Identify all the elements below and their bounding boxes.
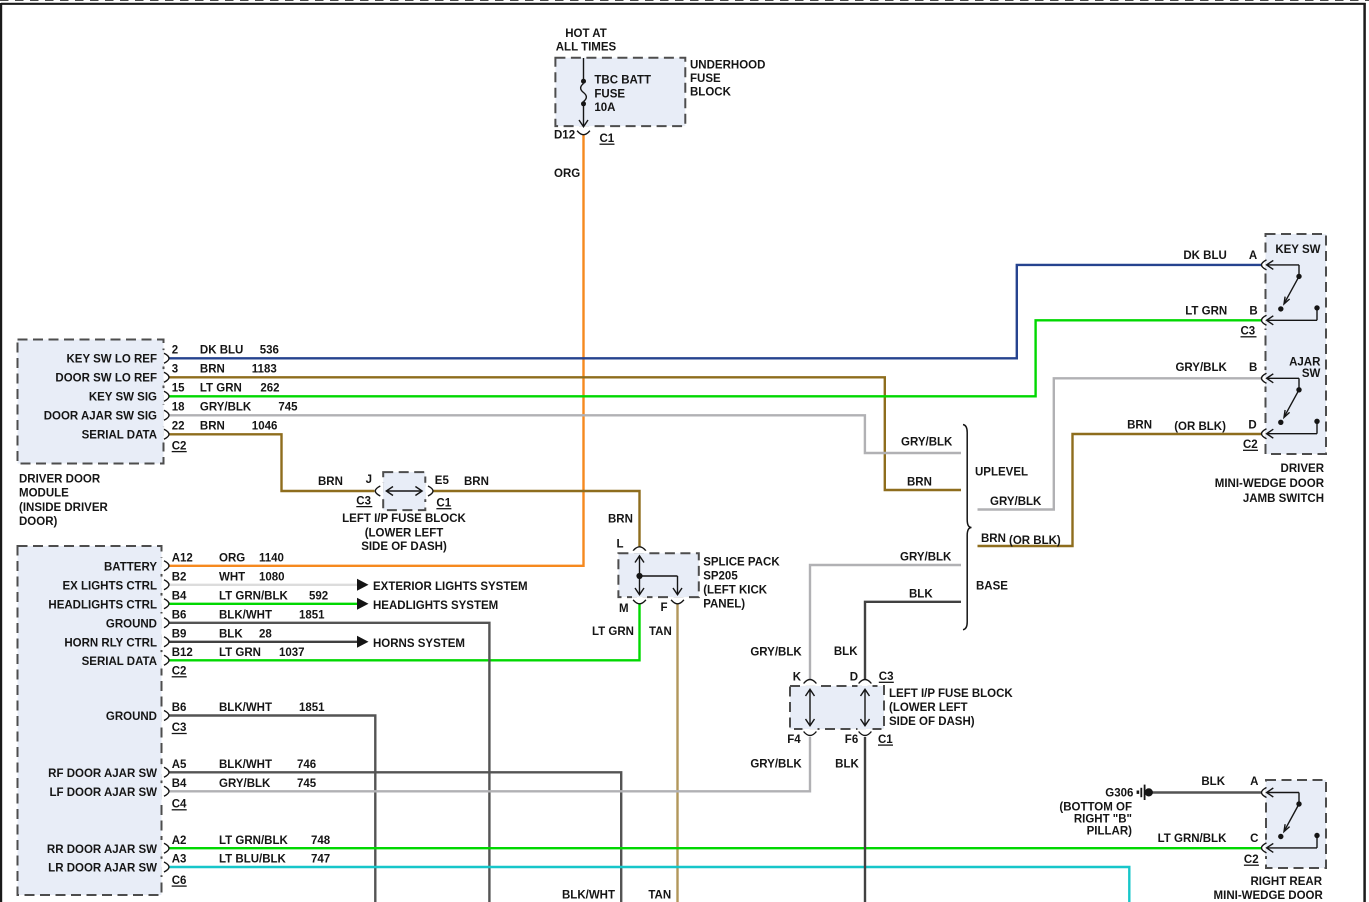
wire BLK 28 (BCM B9 to horns system) xyxy=(169,641,357,643)
svg-text:C2: C2 xyxy=(1244,854,1259,866)
svg-text:SIDE OF DASH): SIDE OF DASH) xyxy=(889,716,975,728)
svg-text:A: A xyxy=(1250,776,1258,788)
svg-text:(OR BLK): (OR BLK) xyxy=(1009,535,1061,547)
svg-text:HORNS SYSTEM: HORNS SYSTEM xyxy=(373,638,465,650)
wire BLK (connector F6 down off page) xyxy=(864,737,866,902)
svg-text:D12: D12 xyxy=(554,130,575,142)
svg-text:EXTERIOR LIGHTS SYSTEM: EXTERIOR LIGHTS SYSTEM xyxy=(373,581,528,593)
svg-text:D: D xyxy=(1248,419,1256,431)
svg-text:GRY/BLK: GRY/BLK xyxy=(901,437,953,449)
svg-text:ORG: ORG xyxy=(554,168,580,180)
svg-text:B6: B6 xyxy=(172,702,187,714)
svg-text:BRN: BRN xyxy=(1127,419,1152,431)
svg-text:DK BLU: DK BLU xyxy=(1183,250,1226,262)
wire BLK (ground G306 to right rear switch pin A) xyxy=(1152,791,1262,793)
svg-text:ALL TIMES: ALL TIMES xyxy=(556,42,617,54)
svg-text:A2: A2 xyxy=(172,835,187,847)
svg-text:1037: 1037 xyxy=(279,647,305,659)
svg-text:C4: C4 xyxy=(172,799,187,811)
svg-text:15: 15 xyxy=(172,382,185,394)
svg-text:GRY/BLK: GRY/BLK xyxy=(750,647,802,659)
svg-text:AJAR: AJAR xyxy=(1289,356,1321,368)
svg-text:748: 748 xyxy=(311,835,331,847)
svg-text:D: D xyxy=(850,671,858,683)
svg-text:745: 745 xyxy=(278,401,298,413)
brace uplevel/base option merge xyxy=(963,425,972,630)
svg-text:LEFT I/P FUSE BLOCK: LEFT I/P FUSE BLOCK xyxy=(889,688,1013,700)
svg-text:BLK: BLK xyxy=(834,646,858,658)
svg-text:LT GRN: LT GRN xyxy=(592,626,634,638)
svg-text:LT GRN/BLK: LT GRN/BLK xyxy=(219,591,288,603)
svg-text:BRN: BRN xyxy=(200,363,225,375)
connector D C3 xyxy=(859,680,872,684)
svg-text:1851: 1851 xyxy=(299,702,325,714)
svg-text:B4: B4 xyxy=(172,591,187,603)
svg-text:HORN RLY CTRL: HORN RLY CTRL xyxy=(64,637,157,649)
arrow to EXTERIOR LIGHTS SYSTEM xyxy=(357,579,369,591)
svg-text:SERIAL DATA: SERIAL DATA xyxy=(82,430,157,442)
wire ORG 1140 (fuse D12 to BCM A12 BATTERY) xyxy=(169,135,584,566)
svg-text:UNDERHOOD: UNDERHOOD xyxy=(690,60,765,72)
svg-text:LT GRN: LT GRN xyxy=(1185,306,1227,318)
svg-text:MINI-WEDGE DOOR: MINI-WEDGE DOOR xyxy=(1214,890,1324,902)
svg-text:A: A xyxy=(1249,250,1257,262)
svg-text:GROUND: GROUND xyxy=(106,711,157,723)
svg-text:1080: 1080 xyxy=(259,572,285,584)
svg-text:BRN: BRN xyxy=(608,514,633,526)
svg-text:SP205: SP205 xyxy=(703,571,738,583)
svg-text:LEFT I/P FUSE BLOCK: LEFT I/P FUSE BLOCK xyxy=(342,513,466,525)
wire BRN (OR BLK) (brace to driver jamb ajar switch pin D) xyxy=(978,434,1262,546)
svg-text:BRN: BRN xyxy=(907,477,932,489)
svg-text:EX LIGHTS CTRL: EX LIGHTS CTRL xyxy=(62,580,157,592)
svg-text:UPLEVEL: UPLEVEL xyxy=(975,467,1028,479)
svg-text:A5: A5 xyxy=(172,759,187,771)
svg-text:PANEL): PANEL) xyxy=(703,598,745,610)
svg-text:TAN: TAN xyxy=(649,626,672,638)
svg-text:GRY/BLK: GRY/BLK xyxy=(900,552,952,564)
svg-text:BLK/WHT: BLK/WHT xyxy=(562,889,615,901)
svg-text:B: B xyxy=(1249,306,1257,318)
svg-text:1851: 1851 xyxy=(299,610,325,622)
module DDM driver door module box xyxy=(18,340,164,464)
svg-text:BLK/WHT: BLK/WHT xyxy=(219,759,272,771)
switch blade right rear jamb switch xyxy=(1265,784,1268,800)
svg-text:F6: F6 xyxy=(845,734,858,746)
svg-text:747: 747 xyxy=(311,854,330,866)
svg-text:WHT: WHT xyxy=(219,572,245,584)
svg-text:LR DOOR AJAR SW: LR DOOR AJAR SW xyxy=(48,863,157,875)
svg-text:KEY SW: KEY SW xyxy=(1275,244,1320,256)
svg-text:LT GRN/BLK: LT GRN/BLK xyxy=(219,835,288,847)
svg-text:GRY/BLK: GRY/BLK xyxy=(750,759,802,771)
wire GRY/BLK (connector K up to BASE brace) xyxy=(810,565,961,679)
svg-text:28: 28 xyxy=(259,629,272,641)
svg-text:SERIAL DATA: SERIAL DATA xyxy=(82,656,157,668)
svg-text:C2: C2 xyxy=(172,666,187,678)
svg-text:GROUND: GROUND xyxy=(106,618,157,630)
svg-text:BLK: BLK xyxy=(1201,776,1225,788)
svg-text:LT GRN/BLK: LT GRN/BLK xyxy=(1158,833,1227,845)
svg-text:262: 262 xyxy=(260,382,279,394)
connector F6 C1 xyxy=(859,732,872,736)
svg-text:B2: B2 xyxy=(172,572,187,584)
svg-text:B12: B12 xyxy=(172,647,193,659)
svg-text:18: 18 xyxy=(172,401,185,413)
svg-text:ORG: ORG xyxy=(219,553,245,565)
svg-text:C6: C6 xyxy=(172,875,187,887)
svg-text:LT GRN: LT GRN xyxy=(200,382,242,394)
svg-text:SIDE OF DASH): SIDE OF DASH) xyxy=(361,541,447,553)
svg-text:BRN: BRN xyxy=(981,533,1006,545)
svg-text:1046: 1046 xyxy=(252,420,278,432)
svg-text:G306: G306 xyxy=(1105,788,1133,800)
svg-text:TBC BATT: TBC BATT xyxy=(594,75,651,87)
svg-text:746: 746 xyxy=(297,759,316,771)
svg-text:LT GRN: LT GRN xyxy=(219,647,261,659)
wire BLK/WHT 746 (BCM A5 RF door ajar sw, turns down at x=621) xyxy=(169,772,621,902)
svg-text:B9: B9 xyxy=(172,629,187,641)
wire BRN (connector E5 to splice pack pin L) xyxy=(434,491,640,547)
svg-text:1183: 1183 xyxy=(252,363,277,375)
svg-text:(BOTTOM OF: (BOTTOM OF xyxy=(1059,802,1132,814)
svg-text:RIGHT REAR: RIGHT REAR xyxy=(1250,876,1322,888)
wire GRY/BLK 745 (DDM pin 18 to UPLEVEL brace) xyxy=(169,415,961,453)
wire LT GRN/BLK 748 (BCM A2 RR door ajar sw to right rear switch pin C) xyxy=(169,847,1262,849)
svg-text:22: 22 xyxy=(172,420,185,432)
svg-text:FUSE: FUSE xyxy=(690,73,721,85)
svg-text:10A: 10A xyxy=(594,102,615,114)
svg-text:PILLAR): PILLAR) xyxy=(1087,826,1133,838)
svg-text:HOT AT: HOT AT xyxy=(565,28,607,40)
svg-text:A12: A12 xyxy=(172,553,193,565)
svg-text:GRY/BLK: GRY/BLK xyxy=(200,401,252,413)
svg-text:(OR BLK): (OR BLK) xyxy=(1174,421,1226,433)
svg-text:B: B xyxy=(1249,362,1257,374)
svg-text:C1: C1 xyxy=(436,497,451,509)
svg-text:C3: C3 xyxy=(1241,326,1256,338)
wire DK BLU 536 (DDM pin 2 to key switch pin A) xyxy=(169,265,1262,358)
svg-text:BATTERY: BATTERY xyxy=(104,561,157,573)
connector K xyxy=(804,680,817,684)
wire TAN (splice pack pin F, runs off page bottom) xyxy=(676,604,678,902)
svg-text:BASE: BASE xyxy=(976,581,1008,593)
svg-text:2: 2 xyxy=(172,344,178,356)
wire WHT 1080 (BCM B2 to exterior lights system) xyxy=(169,584,357,586)
arrow to HORNS SYSTEM xyxy=(357,636,369,648)
svg-text:BLK: BLK xyxy=(835,759,859,771)
svg-text:M: M xyxy=(619,603,629,615)
svg-text:GRY/BLK: GRY/BLK xyxy=(1175,362,1227,374)
wire LT BLU/BLK 747 (BCM A3 LR door ajar sw, turns down at x=1129) xyxy=(169,867,1129,902)
driver mini-wedge door jamb switch box xyxy=(1266,234,1327,454)
svg-text:J: J xyxy=(366,474,372,486)
svg-text:(LEFT KICK: (LEFT KICK xyxy=(703,585,768,597)
svg-text:E5: E5 xyxy=(435,475,450,487)
arrow to HEADLIGHTS SYSTEM xyxy=(357,598,369,610)
svg-text:C1: C1 xyxy=(878,734,893,746)
svg-text:B6: B6 xyxy=(172,610,187,622)
svg-text:536: 536 xyxy=(260,344,279,356)
svg-text:(LOWER LEFT: (LOWER LEFT xyxy=(365,527,444,539)
svg-text:BRN: BRN xyxy=(464,476,489,488)
svg-text:BLOCK: BLOCK xyxy=(690,87,732,99)
fuse TBC BATT FUSE 10A symbol xyxy=(583,58,585,79)
svg-text:C1: C1 xyxy=(600,133,615,145)
svg-text:JAMB SWITCH: JAMB SWITCH xyxy=(1243,493,1324,505)
svg-text:K: K xyxy=(793,671,802,683)
wire LT GRN/BLK 592 (BCM B4 to headlights system) xyxy=(169,603,357,605)
svg-text:GRY/BLK: GRY/BLK xyxy=(990,496,1042,508)
right rear mini-wedge door jamb switch box xyxy=(1266,780,1326,868)
wire BLK/WHT 1851 (BCM B6 C2, turns down at x=489) xyxy=(169,623,489,902)
svg-text:(LOWER LEFT: (LOWER LEFT xyxy=(889,702,968,714)
connector M of splice pack xyxy=(633,600,646,604)
svg-text:BRN: BRN xyxy=(318,476,343,488)
svg-text:SPLICE PACK: SPLICE PACK xyxy=(703,557,780,569)
svg-text:DOOR AJAR SW SIG: DOOR AJAR SW SIG xyxy=(44,411,157,423)
svg-text:A3: A3 xyxy=(172,854,187,866)
wire LT GRN (splice pack pin M to BCM B12 SERIAL DATA) xyxy=(169,604,640,660)
svg-text:HEADLIGHTS CTRL: HEADLIGHTS CTRL xyxy=(48,599,157,611)
svg-text:RF DOOR AJAR SW: RF DOOR AJAR SW xyxy=(48,768,157,780)
svg-text:F4: F4 xyxy=(787,734,801,746)
svg-text:RR DOOR AJAR SW: RR DOOR AJAR SW xyxy=(47,844,157,856)
svg-text:GRY/BLK: GRY/BLK xyxy=(219,778,271,790)
wire BLK (connector D up to BASE brace) xyxy=(865,602,961,679)
svg-text:LF DOOR AJAR SW: LF DOOR AJAR SW xyxy=(49,787,157,799)
module BCM body control module box xyxy=(18,546,162,895)
svg-text:F: F xyxy=(661,602,668,614)
svg-text:DRIVER DOOR: DRIVER DOOR xyxy=(19,473,101,485)
svg-text:BRN: BRN xyxy=(200,420,225,432)
svg-text:C: C xyxy=(1250,833,1258,845)
wire LT GRN 262 (DDM pin 15 to key switch pin B) xyxy=(169,320,1262,396)
svg-text:592: 592 xyxy=(309,591,328,603)
svg-text:C2: C2 xyxy=(172,440,187,452)
svg-text:TAN: TAN xyxy=(648,889,671,901)
wire BLK/WHT 1851 (BCM B6 C3 ground, turns down at x=375) xyxy=(169,716,375,902)
svg-text:(INSIDE DRIVER: (INSIDE DRIVER xyxy=(19,502,109,514)
svg-text:B4: B4 xyxy=(172,778,187,790)
svg-text:C3: C3 xyxy=(172,722,187,734)
wire BRN 1046 (DDM pin 22 to connector J, left I/P fuse block) xyxy=(169,434,375,491)
svg-text:C3: C3 xyxy=(879,671,894,683)
svg-text:3: 3 xyxy=(172,363,178,375)
svg-text:MODULE: MODULE xyxy=(19,488,69,500)
svg-text:L: L xyxy=(616,539,623,551)
in-line connector left I/P fuse block (lower pass-through) xyxy=(790,686,884,729)
svg-text:BLK/WHT: BLK/WHT xyxy=(219,702,272,714)
svg-text:DOOR): DOOR) xyxy=(19,516,58,528)
svg-text:BLK/WHT: BLK/WHT xyxy=(219,610,272,622)
connector F of splice pack xyxy=(671,600,684,604)
svg-text:BLK: BLK xyxy=(909,588,933,600)
underhood fuse block box xyxy=(555,58,685,126)
svg-text:KEY SW SIG: KEY SW SIG xyxy=(89,392,157,404)
connector F4 xyxy=(804,732,817,736)
svg-text:FUSE: FUSE xyxy=(594,89,625,101)
svg-text:HEADLIGHTS SYSTEM: HEADLIGHTS SYSTEM xyxy=(373,600,498,612)
connector D12 C1 below fuse block xyxy=(577,131,590,135)
svg-text:MINI-WEDGE DOOR: MINI-WEDGE DOOR xyxy=(1215,478,1325,490)
splice pack SP205 box xyxy=(618,553,698,597)
wire GRY/BLK (brace to driver jamb ajar switch pin B) xyxy=(978,378,1262,509)
wire BRN 1183 (DDM pin 3 to UPLEVEL brace) xyxy=(169,377,961,490)
svg-text:KEY SW LO REF: KEY SW LO REF xyxy=(66,354,157,366)
svg-text:DK BLU: DK BLU xyxy=(200,344,243,356)
svg-text:DOOR SW LO REF: DOOR SW LO REF xyxy=(55,373,157,385)
svg-text:1140: 1140 xyxy=(259,553,284,565)
svg-text:DRIVER: DRIVER xyxy=(1281,463,1325,475)
svg-text:LT BLU/BLK: LT BLU/BLK xyxy=(219,854,287,866)
svg-text:SW: SW xyxy=(1302,368,1321,380)
svg-text:RIGHT "B": RIGHT "B" xyxy=(1074,814,1132,826)
svg-text:C3: C3 xyxy=(356,495,371,507)
svg-text:C2: C2 xyxy=(1243,439,1258,451)
in-line connector left I/P fuse block (upper pass-through) xyxy=(383,472,425,510)
svg-text:BLK: BLK xyxy=(219,629,243,641)
wire GRY/BLK 745 (BCM B4 LF door ajar sw to connector F4) xyxy=(169,737,810,791)
svg-text:745: 745 xyxy=(297,778,317,790)
